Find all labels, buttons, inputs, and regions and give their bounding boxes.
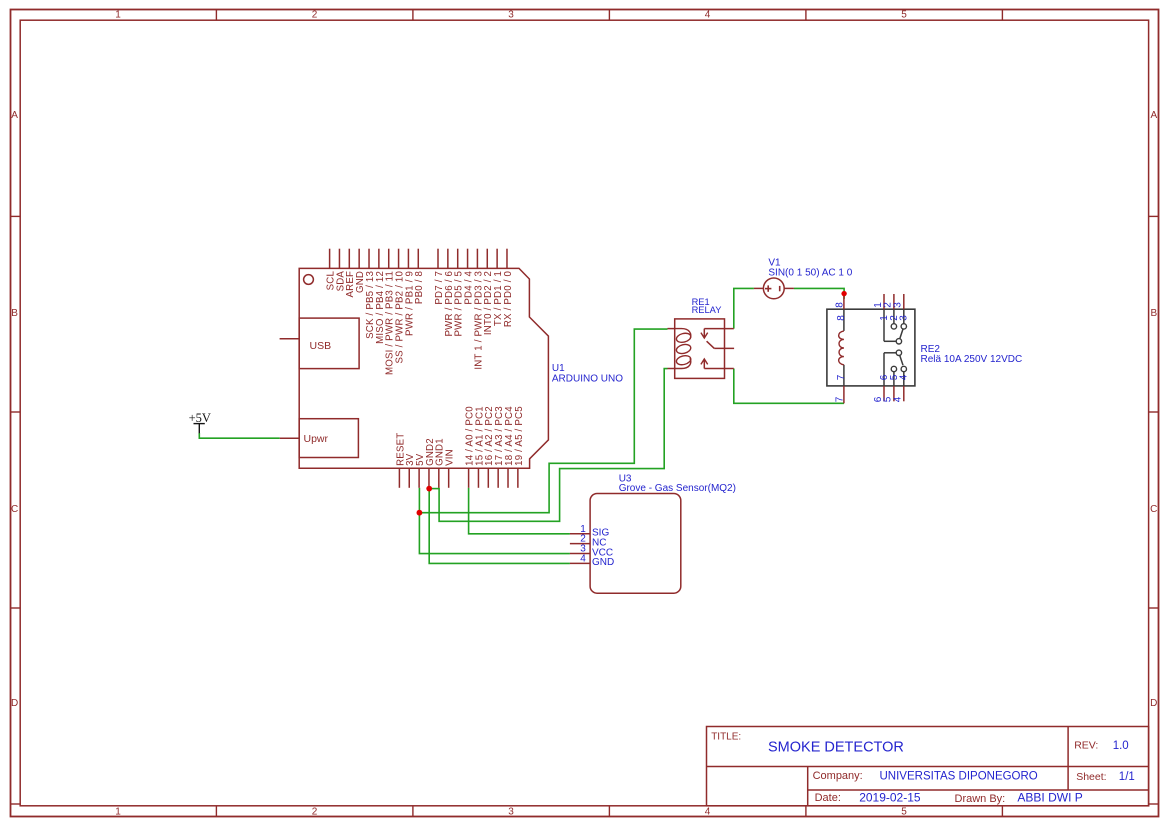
svg-text:2: 2 — [312, 10, 318, 21]
svg-text:3: 3 — [893, 302, 904, 308]
svg-text:1/1: 1/1 — [1119, 771, 1135, 783]
svg-text:5: 5 — [901, 806, 907, 817]
svg-text:D: D — [1150, 698, 1157, 709]
svg-text:REV:: REV: — [1074, 739, 1098, 751]
svg-text:ARDUINO UNO: ARDUINO UNO — [552, 373, 623, 384]
svg-text:ABBI DWI P: ABBI DWI P — [1017, 790, 1082, 804]
svg-text:5: 5 — [901, 10, 907, 21]
svg-text:B: B — [11, 308, 18, 319]
svg-text:4: 4 — [705, 10, 711, 21]
svg-text:USB: USB — [310, 340, 332, 352]
svg-text:8: 8 — [835, 302, 846, 308]
svg-text:19 / A5 / PC5: 19 / A5 / PC5 — [514, 406, 525, 466]
svg-text:Date:: Date: — [815, 792, 841, 804]
svg-text:4: 4 — [580, 553, 586, 564]
svg-text:4: 4 — [705, 806, 711, 817]
svg-text:A: A — [1150, 110, 1157, 121]
svg-text:RELAY: RELAY — [692, 305, 722, 315]
svg-text:2019-02-15: 2019-02-15 — [859, 790, 921, 804]
svg-text:4: 4 — [899, 374, 910, 380]
svg-text:Company:: Company: — [813, 770, 863, 782]
svg-text:C: C — [11, 504, 18, 515]
svg-text:SMOKE DETECTOR: SMOKE DETECTOR — [768, 740, 904, 756]
svg-text:SIN(0 1 50) AC 1 0: SIN(0 1 50) AC 1 0 — [768, 268, 852, 279]
svg-text:Drawn By:: Drawn By: — [955, 793, 1006, 805]
svg-text:3: 3 — [508, 806, 514, 817]
svg-text:C: C — [1150, 504, 1157, 515]
svg-text:+5V: +5V — [189, 411, 211, 425]
svg-text:7: 7 — [835, 396, 846, 402]
svg-text:GND: GND — [592, 557, 614, 568]
svg-text:A: A — [11, 110, 18, 121]
svg-text:1.0: 1.0 — [1113, 740, 1129, 752]
svg-text:UNIVERSITAS DIPONEGORO: UNIVERSITAS DIPONEGORO — [880, 771, 1038, 783]
svg-text:TITLE:: TITLE: — [711, 731, 741, 742]
svg-text:RX / PD0 / 0: RX / PD0 / 0 — [503, 270, 514, 327]
svg-text:1: 1 — [115, 806, 121, 817]
svg-text:Grove - Gas Sensor(MQ2): Grove - Gas Sensor(MQ2) — [619, 483, 736, 494]
svg-text:3: 3 — [899, 315, 910, 321]
svg-text:2: 2 — [312, 806, 318, 817]
svg-text:1: 1 — [115, 10, 121, 21]
svg-text:7: 7 — [836, 374, 847, 380]
svg-text:B: B — [1150, 308, 1157, 319]
svg-text:Relä 10A 250V 12VDC: Relä 10A 250V 12VDC — [921, 354, 1023, 365]
svg-text:Sheet:: Sheet: — [1076, 771, 1106, 783]
svg-text:Upwr: Upwr — [304, 433, 329, 445]
svg-text:4: 4 — [893, 396, 904, 402]
svg-text:VIN: VIN — [445, 449, 456, 466]
svg-text:D: D — [11, 698, 18, 709]
svg-text:3: 3 — [508, 10, 514, 21]
svg-text:8: 8 — [836, 315, 847, 321]
svg-text:PB0 / 8: PB0 / 8 — [414, 271, 425, 304]
